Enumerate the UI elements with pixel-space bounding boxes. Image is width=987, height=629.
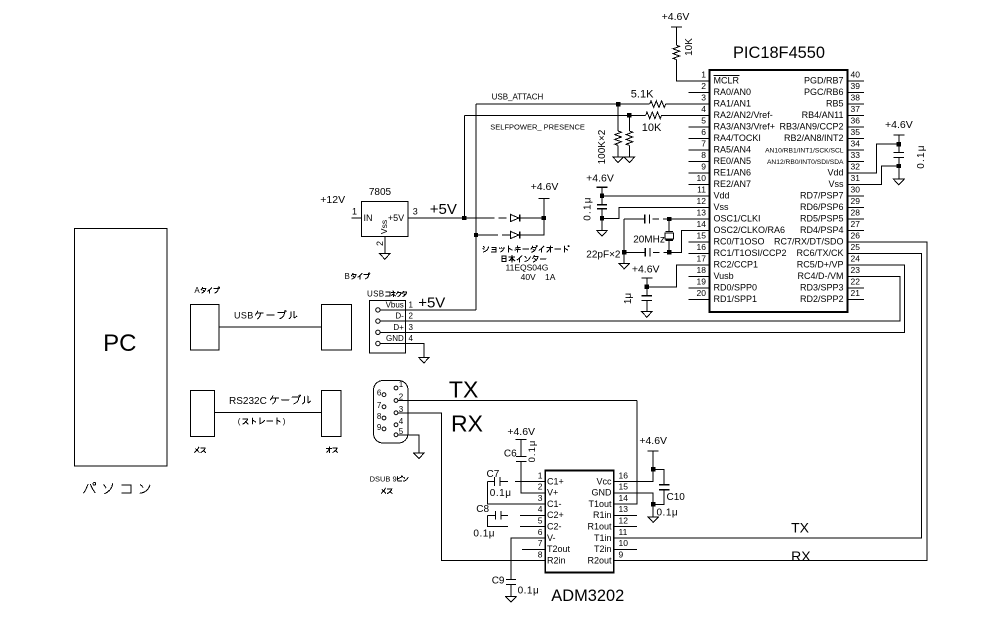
svg-text:28: 28	[851, 208, 861, 218]
svg-text:T1out: T1out	[588, 499, 612, 509]
wire D- net (USB pin2 to RC4)	[381, 277, 900, 322]
svg-text:0.1μ: 0.1μ	[657, 508, 679, 519]
node USB_ATTACH junction	[616, 102, 620, 106]
wire D+ net (USB pin3 to RC5)	[381, 265, 905, 332]
label メス (DSUB)	[381, 488, 392, 493]
svg-text:RC4/D-/VM: RC4/D-/VM	[797, 271, 843, 281]
node +5V junction	[462, 216, 466, 220]
svg-text:2: 2	[409, 312, 414, 321]
svg-text:+4.6V: +4.6V	[885, 119, 913, 131]
svg-text:+5V: +5V	[418, 294, 445, 311]
svg-text:RD3/SPP3: RD3/SPP3	[800, 282, 844, 292]
svg-text:SELFPOWER_ PRESENCE: SELFPOWER_ PRESENCE	[490, 122, 585, 131]
svg-text:20: 20	[697, 288, 707, 298]
svg-text:RC0/T1OSO: RC0/T1OSO	[714, 236, 765, 246]
svg-text:0.1μ: 0.1μ	[490, 488, 512, 499]
wire USB_ATTACH net	[476, 103, 710, 105]
ground (C9)	[506, 597, 517, 603]
ground (7805)	[380, 254, 391, 260]
svg-text:15: 15	[619, 482, 629, 492]
svg-text:RC7/RX/DT/SDO: RC7/RX/DT/SDO	[774, 236, 844, 246]
wire T2out stub	[522, 548, 534, 550]
svg-text:PGC/RB6: PGC/RB6	[804, 87, 844, 97]
wire SELFPOWER vertical riser	[463, 115, 465, 218]
svg-text:RD4/PSP4: RD4/PSP4	[800, 225, 844, 235]
wire Vcc pin16	[625, 451, 654, 482]
USB connector J1	[370, 301, 414, 354]
wire DSUB pin3 to R2in	[398, 413, 534, 561]
svg-text:RX: RX	[451, 410, 483, 436]
RS232C cable left connector box	[191, 391, 215, 437]
svg-text:RB4/AN11: RB4/AN11	[802, 110, 844, 120]
svg-text:D-: D-	[395, 312, 404, 321]
svg-text:29: 29	[851, 196, 861, 206]
ground (right bypass)	[894, 179, 905, 185]
label オス	[326, 447, 337, 452]
svg-text:10: 10	[697, 173, 707, 183]
svg-text:C1+: C1+	[547, 476, 564, 486]
svg-text:TX: TX	[449, 377, 478, 403]
node pin17 junction	[645, 285, 649, 289]
capacitor C10 0.1u	[653, 469, 685, 518]
svg-text:3: 3	[701, 93, 706, 103]
svg-text:4: 4	[399, 417, 404, 426]
svg-text:RD0/SPP0: RD0/SPP0	[714, 282, 758, 292]
svg-text:33: 33	[851, 150, 861, 160]
ground (1u cap)	[642, 301, 653, 318]
wire to diode D1 (dashed)	[464, 217, 510, 219]
wire Vss pin31	[864, 158, 899, 185]
svg-text:Vdd: Vdd	[714, 190, 730, 200]
resistor R4 100K	[615, 104, 622, 157]
svg-text:21: 21	[851, 288, 861, 298]
wire USB_ATTACH vertical riser	[475, 104, 477, 310]
svg-text:A: A	[194, 286, 200, 295]
label USBケーブル	[234, 310, 297, 320]
svg-text:+4.6V: +4.6V	[507, 426, 535, 438]
+4.6V power (right bypass)	[885, 119, 913, 135]
node SELFPOWER junction	[627, 113, 631, 117]
svg-text:16: 16	[697, 242, 707, 252]
svg-text:RC5/D+/VP: RC5/D+/VP	[797, 259, 844, 269]
svg-text:RD1/SPP1: RD1/SPP1	[714, 294, 758, 304]
svg-text:RE2/AN7: RE2/AN7	[714, 179, 752, 189]
svg-text:RD6/PSP6: RD6/PSP6	[800, 202, 844, 212]
capacitor C7 0.1u	[487, 469, 534, 504]
svg-text:26: 26	[851, 231, 861, 241]
svg-text:RC1/T1OSI/CCP2: RC1/T1OSI/CCP2	[714, 248, 787, 258]
svg-text:20MHz: 20MHz	[633, 235, 665, 246]
ground (USB connector)	[419, 357, 430, 363]
svg-text:1: 1	[538, 470, 543, 480]
svg-text:Vdd: Vdd	[827, 167, 843, 177]
PC box	[75, 229, 168, 467]
svg-text:PIC18F4550: PIC18F4550	[733, 44, 825, 62]
label SELFPOWER_ PRESENCE	[490, 122, 585, 131]
crystal X1 20MHz	[633, 219, 673, 252]
svg-text:C9: C9	[492, 576, 505, 587]
svg-text:Vcc: Vcc	[596, 476, 612, 486]
svg-text:5.1K: 5.1K	[631, 89, 654, 101]
svg-text:13: 13	[619, 504, 629, 514]
svg-text:OSC1/CLKI: OSC1/CLKI	[714, 213, 761, 223]
label 日本インター	[502, 256, 546, 262]
svg-text:15: 15	[697, 231, 707, 241]
svg-text:RC6/TX/CK: RC6/TX/CK	[796, 248, 843, 258]
svg-text:Vss: Vss	[379, 220, 389, 234]
svg-text:0.1μ: 0.1μ	[473, 529, 495, 540]
svg-text:0.1μ: 0.1μ	[527, 440, 538, 463]
svg-text:+4.6V: +4.6V	[632, 264, 660, 276]
svg-text:+4.6V: +4.6V	[662, 11, 690, 23]
diode D1 (schottky)	[511, 214, 520, 221]
svg-text:32: 32	[851, 162, 861, 172]
svg-text:PC: PC	[103, 330, 136, 357]
wire D1 cathode to +4.6V node	[520, 217, 544, 219]
svg-text:35: 35	[851, 127, 861, 137]
svg-text:RE0/AN5: RE0/AN5	[714, 156, 752, 166]
svg-text:RA1/AN1: RA1/AN1	[714, 98, 752, 108]
svg-text:RB5: RB5	[826, 98, 844, 108]
svg-text:1: 1	[409, 301, 414, 310]
diode D2 (schottky)	[511, 231, 520, 238]
svg-text:RA3/AN3/Vref+: RA3/AN3/Vref+	[714, 121, 775, 131]
ground (Vdd bypass cap)	[597, 230, 608, 236]
svg-text:16: 16	[619, 470, 629, 480]
label USB_ATTACH	[492, 92, 544, 101]
wire USB GND	[381, 344, 424, 358]
svg-text:USB: USB	[234, 311, 254, 321]
svg-text:2: 2	[538, 482, 543, 492]
wire DSUB pin5 to ground	[398, 435, 419, 453]
svg-text:40V: 40V	[521, 272, 536, 282]
svg-text:Vss: Vss	[828, 179, 844, 189]
DSUB 9-pin connector J2	[374, 380, 409, 443]
svg-text:T1in: T1in	[594, 533, 612, 543]
+4.6V power (Vdd bypass)	[586, 173, 614, 188]
wire RC2 pin17 to cap	[647, 265, 710, 287]
wire GND pin15	[625, 493, 654, 517]
wire USB cable	[219, 326, 321, 328]
node crystal bottom	[667, 250, 671, 254]
label TX (ADM)	[791, 520, 810, 536]
node cap bottom junction	[600, 216, 604, 220]
svg-text:12: 12	[619, 516, 629, 526]
svg-text:5: 5	[701, 116, 706, 126]
label ショットキーダイオード	[483, 245, 569, 252]
+4.6V power (diodes)	[531, 181, 559, 218]
svg-text:GND: GND	[592, 488, 613, 498]
USB cable A-type connector box	[191, 305, 220, 351]
svg-text:R1in: R1in	[593, 510, 612, 520]
wire SELFPOWER net	[464, 114, 709, 116]
label DSUB 9ピン	[370, 475, 408, 484]
svg-text:C10: C10	[667, 492, 686, 503]
node C10 top	[651, 467, 655, 471]
svg-text:OSC2/CLKO/RA6: OSC2/CLKO/RA6	[714, 225, 786, 235]
wire TX net (RC6 to T1in)	[625, 254, 922, 539]
label パソコン	[84, 483, 150, 494]
label +5V (Vbus)	[418, 294, 445, 311]
svg-text:): )	[283, 417, 286, 426]
wire RS232C cable	[215, 412, 322, 414]
svg-text:4: 4	[409, 334, 414, 343]
svg-text:36: 36	[851, 116, 861, 126]
ground (DSUB)	[414, 453, 425, 459]
resistor R5 100K	[626, 115, 633, 157]
svg-text:14: 14	[697, 219, 707, 229]
svg-text:27: 27	[851, 219, 861, 229]
svg-text:3: 3	[538, 493, 543, 503]
svg-text:+12V: +12V	[320, 194, 345, 206]
wire Vbus to +5V riser	[381, 309, 477, 311]
PIC18F4550 U1	[688, 44, 864, 312]
svg-text:6: 6	[538, 527, 543, 537]
resistor R2 5.1K	[631, 89, 666, 108]
svg-text:D+: D+	[393, 323, 404, 332]
svg-text:1: 1	[352, 207, 357, 217]
svg-text:6: 6	[701, 127, 706, 137]
svg-text:RA2/AN2/Vref-: RA2/AN2/Vref-	[714, 110, 773, 120]
+4.6V power (MCLR pullup)	[662, 11, 690, 27]
capacitor 22pF top	[645, 215, 650, 224]
+4.6V power (C10)	[639, 435, 667, 451]
node Vbus branch junction	[474, 233, 478, 237]
svg-text:7: 7	[377, 401, 382, 410]
capacitor 0.1u (Vdd bypass)	[583, 196, 608, 220]
capacitor 0.1u (right bypass)	[894, 144, 928, 168]
label メス	[195, 447, 206, 452]
resistor R3 10K	[642, 112, 662, 134]
svg-text:22: 22	[851, 277, 861, 287]
capacitor C9 0.1u	[492, 538, 540, 597]
svg-text:0.1μ: 0.1μ	[916, 144, 927, 168]
wire MCLR net	[676, 60, 709, 81]
svg-text:IN: IN	[364, 213, 373, 223]
wire D2 cathode up to node	[520, 218, 544, 235]
node C10 bottom	[651, 502, 655, 506]
svg-text:T2out: T2out	[547, 544, 571, 554]
svg-text:C2-: C2-	[547, 522, 562, 532]
USB cable B-side connector box	[322, 305, 352, 351]
svg-text:GND: GND	[386, 334, 404, 343]
svg-text:5: 5	[538, 516, 543, 526]
svg-text:10: 10	[619, 538, 629, 548]
svg-text:34: 34	[851, 139, 861, 149]
label RS232Cケーブル	[229, 395, 311, 407]
svg-text:USB_ATTACH: USB_ATTACH	[492, 92, 544, 101]
svg-text:RB3/AN9/CCP2: RB3/AN9/CCP2	[779, 121, 843, 131]
svg-text:10K: 10K	[642, 122, 662, 134]
svg-text:13: 13	[697, 208, 707, 218]
svg-text:7: 7	[538, 538, 543, 548]
svg-text:(: (	[238, 417, 241, 426]
svg-text:4: 4	[701, 104, 706, 114]
node caps common	[622, 250, 626, 254]
svg-text:C8: C8	[476, 504, 489, 515]
svg-text:8: 8	[701, 150, 706, 160]
ground (crystal)	[619, 263, 630, 269]
wire T2in stub	[625, 548, 637, 550]
node right cap bottom	[897, 164, 901, 168]
label +5V (7805 output)	[430, 201, 457, 218]
svg-text:37: 37	[851, 104, 861, 114]
svg-text:18: 18	[697, 265, 707, 275]
svg-text:24: 24	[851, 254, 861, 264]
svg-text:11: 11	[619, 527, 628, 537]
svg-text:6: 6	[377, 389, 382, 398]
svg-text:8: 8	[538, 549, 543, 559]
node diode outputs	[542, 216, 546, 220]
svg-text:1A: 1A	[545, 272, 556, 282]
label RX (big)	[451, 410, 483, 436]
svg-text:RD2/SPP2: RD2/SPP2	[800, 294, 844, 304]
svg-text:19: 19	[697, 277, 707, 287]
svg-text:Vusb: Vusb	[714, 271, 734, 281]
label +12V	[320, 194, 345, 206]
node right cap top	[897, 142, 901, 146]
svg-text:31: 31	[851, 173, 861, 183]
node crystal top	[667, 217, 671, 221]
svg-text:DSUB 9: DSUB 9	[370, 475, 397, 484]
wire 7805 pin2 to ground	[384, 237, 386, 254]
svg-text:PGD/RB7: PGD/RB7	[804, 75, 844, 85]
svg-text:+4.6V: +4.6V	[639, 435, 667, 447]
wire T1out riser	[625, 401, 637, 505]
resistor R1 10K pullup	[673, 27, 695, 60]
svg-text:100K×2: 100K×2	[597, 129, 608, 164]
svg-text:2: 2	[375, 241, 385, 246]
label 100K×2	[597, 129, 608, 164]
svg-text:1: 1	[399, 380, 404, 389]
svg-text:TX: TX	[791, 520, 810, 536]
label USBコネクタ	[367, 290, 407, 299]
label (ストレート)	[238, 417, 286, 426]
svg-text:V+: V+	[547, 488, 558, 498]
svg-text:8: 8	[377, 412, 382, 421]
svg-text:7: 7	[701, 139, 706, 149]
label 11EQS04G	[506, 263, 549, 273]
ground (C10)	[648, 517, 659, 523]
wire Vss pin12 jog	[602, 208, 710, 231]
svg-text:RS232C: RS232C	[229, 396, 267, 407]
svg-text:+4.6V: +4.6V	[531, 181, 559, 193]
svg-text:22pF×2: 22pF×2	[586, 249, 621, 260]
RS232C cable right connector box	[322, 391, 342, 437]
svg-text:RD7/PSP7: RD7/PSP7	[800, 190, 844, 200]
svg-text:+5V: +5V	[388, 213, 404, 223]
ground (R4)	[613, 157, 624, 163]
svg-text:14: 14	[619, 493, 629, 503]
svg-text:RC2/CCP1: RC2/CCP1	[714, 259, 759, 269]
svg-text:V-: V-	[547, 533, 556, 543]
capacitor C8 0.1u	[473, 504, 533, 539]
svg-text:ADM3202: ADM3202	[551, 587, 624, 605]
svg-text:12: 12	[697, 196, 707, 206]
+4.6V power (pin17)	[632, 264, 660, 296]
capacitor C6 0.1u	[504, 440, 538, 493]
label 40V 1A	[521, 272, 556, 282]
svg-text:R1out: R1out	[587, 522, 612, 532]
svg-text:C1-: C1-	[547, 499, 562, 509]
svg-text:9: 9	[619, 549, 624, 559]
svg-text:0.1μ: 0.1μ	[518, 586, 540, 597]
svg-text:R2out: R2out	[587, 555, 612, 565]
wire R1in stub	[625, 514, 637, 516]
label Bタイプ	[345, 272, 370, 281]
svg-text:C7: C7	[487, 469, 500, 480]
svg-text:10K: 10K	[684, 38, 695, 56]
wire Vdd pin32	[864, 135, 899, 173]
svg-text:RE1/AN6: RE1/AN6	[714, 167, 752, 177]
svg-text:39: 39	[851, 81, 861, 91]
svg-text:3: 3	[413, 207, 418, 217]
wire crystal caps common	[623, 219, 625, 263]
svg-text:30: 30	[851, 185, 861, 195]
wire OSC1 pin13	[624, 218, 709, 220]
label RX (ADM)	[791, 548, 811, 564]
svg-text:17: 17	[697, 254, 707, 264]
wire +5V output	[408, 217, 464, 219]
wire R1out stub	[625, 526, 637, 528]
svg-text:RB2/AN8/INT2: RB2/AN8/INT2	[784, 133, 844, 143]
svg-text:4: 4	[538, 504, 543, 514]
label Aタイプ	[194, 286, 219, 295]
+4.6V power (C6)	[507, 426, 535, 440]
svg-text:C6: C6	[504, 448, 517, 459]
svg-text:11: 11	[697, 185, 706, 195]
wire OSC2 pin14	[624, 231, 709, 253]
svg-text:Vbus: Vbus	[386, 301, 404, 310]
svg-text:AN10/RB1/INT1/SCK/SCL: AN10/RB1/INT1/SCK/SCL	[765, 147, 844, 154]
svg-text:23: 23	[851, 265, 861, 275]
svg-text:RA4/TOCKI: RA4/TOCKI	[714, 133, 761, 143]
svg-text:RA5/AN4: RA5/AN4	[714, 144, 752, 154]
svg-text:2: 2	[701, 81, 706, 91]
wire to diode D2 (dashed)	[476, 234, 511, 236]
svg-text:+4.6V: +4.6V	[586, 173, 614, 185]
svg-text:9: 9	[377, 423, 382, 432]
svg-text:RX: RX	[791, 548, 811, 564]
svg-text:RA0/AN0: RA0/AN0	[714, 87, 752, 97]
svg-text:+5V: +5V	[430, 201, 457, 218]
svg-text:40: 40	[851, 70, 861, 80]
wire DSUB pin2 to T1out	[398, 400, 637, 402]
capacitor 22pF bottom	[586, 248, 650, 260]
svg-text:AN12/RB0/INT0/SDI/SDA: AN12/RB0/INT0/SDI/SDA	[767, 159, 844, 166]
svg-text:MCLR: MCLR	[714, 75, 740, 85]
voltage regulator 7805	[352, 187, 418, 246]
ADM3202 U2	[533, 470, 628, 605]
svg-text:1: 1	[701, 70, 706, 80]
svg-text:B: B	[345, 272, 350, 281]
svg-text:3: 3	[409, 323, 414, 332]
svg-text:1μ: 1μ	[623, 293, 634, 305]
svg-text:USB: USB	[367, 290, 384, 299]
svg-text:R2in: R2in	[547, 555, 566, 565]
svg-text:Vss: Vss	[714, 202, 730, 212]
svg-text:C2+: C2+	[547, 510, 564, 520]
svg-text:RD5/PSP5: RD5/PSP5	[800, 213, 844, 223]
wire RX net (RC7 to R2out)	[625, 242, 927, 561]
svg-text:38: 38	[851, 93, 861, 103]
svg-text:T2in: T2in	[594, 544, 612, 554]
node pin11 junction	[600, 194, 604, 198]
svg-text:0.1μ: 0.1μ	[583, 196, 594, 220]
wire Vdd pin11	[602, 187, 710, 205]
label TX (big)	[449, 377, 478, 403]
capacitor 1u	[623, 293, 652, 305]
